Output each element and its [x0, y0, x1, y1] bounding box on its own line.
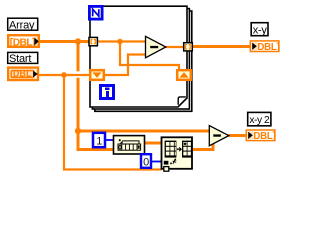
svg-text:DBL: DBL: [13, 68, 32, 78]
svg-text:DBL]: DBL]: [253, 131, 275, 142]
svg-text:DBL]: DBL]: [257, 42, 279, 53]
svg-text:x-y: x-y: [253, 24, 268, 36]
svg-text:Array: Array: [9, 19, 35, 31]
svg-text:x-y 2: x-y 2: [249, 115, 270, 126]
svg-text:Start: Start: [9, 53, 31, 65]
svg-text:1: 1: [96, 136, 102, 148]
svg-text:[DBL]: [DBL]: [10, 37, 35, 48]
svg-text:0: 0: [143, 156, 149, 168]
